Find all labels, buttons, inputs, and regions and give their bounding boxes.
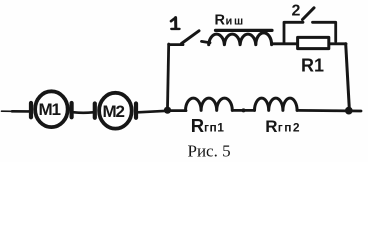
resistor R1 — [298, 37, 329, 48]
wire Rгп1 to Rгп2 — [232, 109, 254, 112]
inductor Rиш core line — [216, 29, 273, 32]
switch 2 bypass branch — [284, 8, 336, 44]
inductor Rгп1 coil — [186, 98, 233, 110]
svg-text:R: R — [191, 115, 204, 136]
motor M1 — [31, 91, 72, 127]
svg-text:М2: М2 — [103, 102, 125, 121]
svg-text:иш: иш — [226, 15, 246, 27]
wire R1 to right rail — [330, 42, 346, 45]
wire left rail vertical — [168, 44, 169, 108]
wire left lead to M1 — [2, 110, 13, 112]
small junction blob — [242, 108, 246, 112]
wire M1 to M2 — [74, 111, 93, 114]
wire Rгп2 to bottom right end — [297, 109, 361, 112]
svg-text:М1: М1 — [39, 100, 61, 119]
node B junction dot — [345, 107, 353, 115]
switch 1 — [169, 31, 210, 45]
svg-text:гп2: гп2 — [278, 121, 301, 135]
svg-text:R: R — [265, 117, 277, 136]
inductor Rгп2 coil — [255, 98, 298, 110]
inductor Rгп1 label — [191, 115, 225, 136]
wire M2 to node A — [138, 111, 167, 113]
inductor Rиш coil — [209, 33, 272, 45]
inductor Rиш label — [215, 13, 246, 29]
switch 1 label — [171, 18, 180, 29]
svg-text:R: R — [215, 13, 226, 29]
svg-text:гп1: гп1 — [204, 121, 224, 135]
motor M2 — [95, 93, 136, 129]
svg-text:R1: R1 — [301, 55, 324, 75]
wire right rail vertical — [346, 44, 350, 109]
node A junction dot — [164, 107, 171, 114]
wire coil to R1 — [272, 42, 297, 45]
inductor Rгп2 label — [265, 117, 301, 136]
svg-text:Рис. 5: Рис. 5 — [188, 142, 231, 161]
wire node A to Rгп1 — [168, 109, 187, 112]
svg-text:2: 2 — [292, 3, 301, 20]
